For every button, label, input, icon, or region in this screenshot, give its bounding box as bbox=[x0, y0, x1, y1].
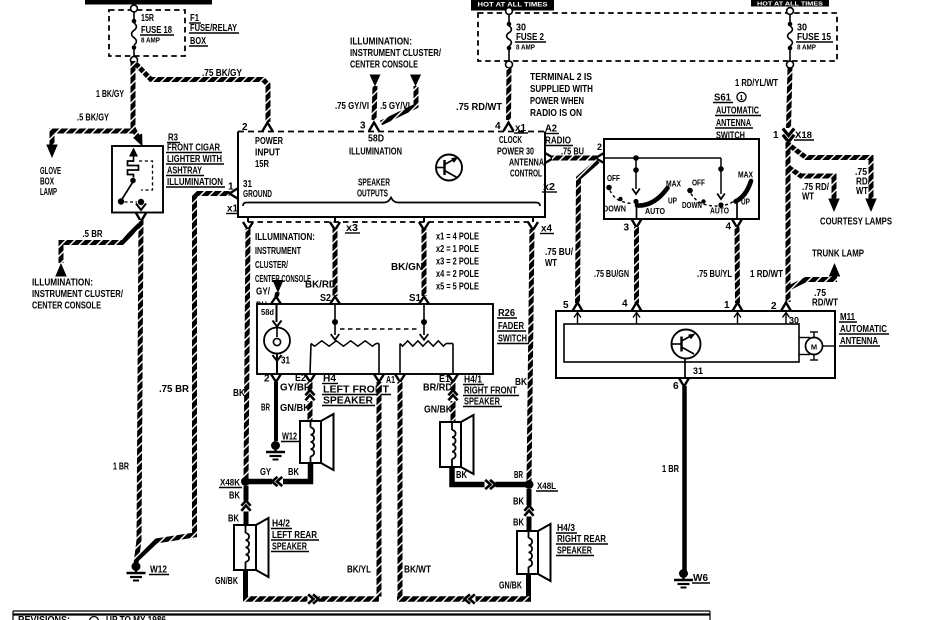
fader wiper S2 bbox=[331, 304, 340, 340]
wire BK/WT (A1b) bbox=[398, 382, 403, 597]
label 4 (radio pin) bbox=[495, 121, 501, 132]
label GY/ BU bbox=[256, 287, 270, 312]
label 30 (M11) bbox=[789, 316, 799, 326]
connector chevrons (GY/BK) bbox=[272, 477, 283, 486]
wire .75 GY/VI bbox=[374, 86, 375, 120]
label ANTENNA (M11) bbox=[839, 336, 880, 347]
svg-text:LAMP: LAMP bbox=[40, 187, 57, 198]
svg-text:X18: X18 bbox=[795, 130, 812, 140]
svg-text:.5 BR: .5 BR bbox=[83, 229, 104, 240]
svg-text:ANTENNA: ANTENNA bbox=[509, 158, 544, 169]
label 1 RD/YL/WT bbox=[735, 78, 778, 89]
svg-text:BK: BK bbox=[228, 514, 240, 525]
label S1 bbox=[409, 293, 421, 304]
switch rotary 1 thick arc bbox=[637, 188, 668, 206]
svg-text:1: 1 bbox=[724, 300, 730, 311]
fuse/relay box F1 (dashed) bbox=[109, 10, 185, 56]
label BK (to H4/2) bbox=[228, 514, 240, 525]
label 58D ILLUMINATION bbox=[349, 134, 402, 158]
label BK/GN bbox=[391, 262, 423, 273]
svg-text:3: 3 bbox=[360, 121, 366, 132]
svg-text:BK: BK bbox=[456, 470, 468, 481]
fader pin A1a fork bbox=[374, 374, 384, 382]
label BK (right wire) bbox=[515, 377, 528, 388]
label BK (left wire) bbox=[233, 388, 246, 399]
svg-text:CONTROL: CONTROL bbox=[510, 169, 542, 180]
label BOX bbox=[189, 36, 208, 47]
svg-text:2: 2 bbox=[597, 142, 602, 152]
label .75 BU/ WT bbox=[545, 247, 573, 269]
fader pin S1 fork bbox=[419, 297, 429, 305]
svg-text:TRUNK LAMP: TRUNK LAMP bbox=[812, 249, 864, 260]
label GN/BK (E1) bbox=[424, 405, 453, 416]
svg-text:ILLUMINATION: ILLUMINATION bbox=[349, 147, 402, 158]
switch rotary 1 wiper arrow bbox=[632, 189, 640, 205]
M11 pin 5 stub arrow bbox=[574, 313, 581, 325]
label ILLUMINATION: INSTRUMENT CLUSTER/ CENTER CONSOLE bbox=[32, 278, 123, 312]
fader lamp top arrow bbox=[273, 304, 282, 327]
fuse box (dashed, fuses 2 and 15) bbox=[478, 13, 837, 61]
arrow to glove box lamp bbox=[46, 145, 58, 159]
M11 pin 2 fork bbox=[781, 303, 791, 312]
fuse F1 FUSE 18 bbox=[131, 5, 138, 63]
svg-text:1: 1 bbox=[773, 130, 779, 141]
label HOT AT ALL TIMES (cropped) middle bbox=[471, 0, 554, 11]
wire 1 RD/YL/WT bbox=[789, 68, 791, 128]
svg-text:SPEAKER: SPEAKER bbox=[358, 178, 391, 189]
svg-text:A1: A1 bbox=[386, 375, 395, 386]
label F1 bbox=[189, 13, 201, 24]
switch pin 4 fork bbox=[732, 219, 742, 228]
switch rotary 2 feed bbox=[718, 166, 724, 194]
svg-text:.75 BU/: .75 BU/ bbox=[545, 247, 573, 258]
label .75 RD/ WT (branch 2) bbox=[802, 182, 829, 203]
connector chevrons below X48K bbox=[241, 501, 250, 512]
svg-text:x1 = 4 POLE: x1 = 4 POLE bbox=[436, 232, 479, 243]
wire BR (fader 31 to W12) bbox=[274, 382, 278, 441]
label HOT AT ALL TIMES right bbox=[751, 0, 829, 8]
connector pin fork x4 bbox=[528, 222, 538, 230]
svg-text:BK: BK bbox=[233, 388, 246, 399]
label FUSE 2 bbox=[515, 32, 546, 43]
label E1 bbox=[439, 374, 450, 385]
ground W12 bbox=[127, 562, 146, 581]
switch pin 2 fork bbox=[596, 153, 605, 163]
wire .75 BU bbox=[552, 156, 597, 161]
wire BK (radio to X48K) bbox=[246, 229, 248, 480]
svg-text:AUTO: AUTO bbox=[645, 206, 665, 216]
switch rotary 1 output bbox=[636, 206, 638, 219]
ground W6 bbox=[674, 569, 693, 588]
pin fork below R3 bbox=[136, 213, 146, 222]
label .75 BU/YL bbox=[697, 269, 732, 280]
wire BK (x4 to X48L) bbox=[529, 229, 532, 483]
svg-text:x3 = 2 POLE: x3 = 2 POLE bbox=[436, 257, 479, 268]
svg-text:.75 BR: .75 BR bbox=[159, 384, 190, 395]
svg-text:POWER WHEN: POWER WHEN bbox=[530, 96, 584, 107]
label X48L bbox=[536, 481, 558, 491]
label .75 BR bbox=[159, 384, 190, 395]
wire 1 BK/GY bbox=[133, 61, 139, 139]
wire .75 BU/WT bbox=[578, 161, 599, 303]
label W12 bbox=[149, 565, 169, 576]
svg-text:2: 2 bbox=[242, 122, 248, 133]
label W6 bbox=[692, 573, 710, 584]
label 1 BR bbox=[113, 462, 130, 473]
label .75 RD/WT bbox=[456, 102, 502, 113]
label 58d bbox=[261, 307, 274, 317]
fader potentiometer right bbox=[400, 341, 453, 374]
label BK (to H4/3) bbox=[513, 518, 525, 529]
svg-text:POWER 30: POWER 30 bbox=[497, 147, 534, 158]
label 1 RD/WT bbox=[750, 269, 783, 280]
switch rotary 1 OFF contact bbox=[606, 173, 620, 190]
label 31 (fader) bbox=[281, 356, 290, 367]
svg-text:GLOVE: GLOVE bbox=[40, 166, 61, 177]
svg-text:BR: BR bbox=[514, 470, 523, 481]
fader pin E1 fork bbox=[448, 374, 458, 382]
wire courtesy lamp branch 1 bbox=[789, 145, 871, 200]
label .75 BU/GN bbox=[594, 269, 629, 280]
label BR (X48L side) bbox=[514, 470, 523, 481]
automatic antenna M11 box bbox=[556, 311, 835, 378]
svg-text:OFF: OFF bbox=[607, 173, 620, 183]
label .5 BR bbox=[83, 229, 104, 240]
label 2 (M11 pin) bbox=[771, 301, 777, 312]
M11 pin 2 stub arrow bbox=[783, 313, 790, 325]
label AUTOMATIC (S61) bbox=[715, 106, 761, 117]
svg-text:GY: GY bbox=[260, 467, 271, 478]
pin fork radio pin 1 bbox=[230, 189, 238, 199]
label A1 bbox=[386, 375, 395, 386]
label AUTO (rotary 1) bbox=[645, 206, 665, 216]
svg-text:MAX: MAX bbox=[738, 170, 753, 180]
svg-text:DOWN: DOWN bbox=[603, 204, 626, 214]
junction X48K bbox=[241, 477, 250, 486]
radio top pin 4 fork bbox=[504, 123, 514, 132]
label x1 (radio pin 4) bbox=[514, 123, 528, 134]
wire .75 BK/GY bbox=[135, 63, 268, 122]
wire H4/2 to bus bbox=[243, 570, 248, 599]
svg-text:INSTRUMENT: INSTRUMENT bbox=[255, 246, 301, 257]
label REVISIONS (cropped) bbox=[18, 615, 166, 620]
motor M in M11 bbox=[799, 332, 835, 360]
label BR (wire) bbox=[261, 403, 270, 414]
connector chevrons rear bus right bbox=[465, 594, 476, 603]
svg-text:BK: BK bbox=[229, 491, 241, 502]
wire rear bus right (BK/WT) bbox=[397, 596, 531, 602]
svg-text:31: 31 bbox=[693, 366, 703, 376]
label x3 bbox=[345, 223, 360, 234]
svg-text:CENTER CONSOLE: CENTER CONSOLE bbox=[255, 274, 311, 285]
fader wiper S1 bbox=[420, 304, 429, 340]
wire GY/BR GN/BK (E2) bbox=[308, 382, 313, 421]
label 30 (fuse2) bbox=[516, 23, 526, 34]
cigar lighter R3 box bbox=[112, 146, 163, 213]
switch pin 3 fork bbox=[632, 219, 642, 228]
transistor in radio bbox=[436, 155, 462, 181]
wire BR/RD GN/BK (E1) bbox=[451, 382, 456, 422]
wire courtesy lamp branch 2 bbox=[788, 167, 834, 200]
wire BK below X48L bbox=[527, 489, 532, 531]
label 5 (M11 pin) bbox=[563, 300, 569, 311]
switch rotary 2 OFF contact bbox=[687, 178, 705, 194]
svg-text:INSTRUMENT CLUSTER/: INSTRUMENT CLUSTER/ bbox=[350, 48, 441, 59]
wire trunk lamp branch bbox=[788, 274, 835, 289]
svg-text:x2 = 1 POLE: x2 = 1 POLE bbox=[436, 244, 479, 255]
revisions table border bbox=[13, 611, 710, 620]
fader lamp bbox=[264, 328, 290, 354]
label DOWN (rotary 2) bbox=[682, 200, 702, 210]
svg-text:TERMINAL 2 IS: TERMINAL 2 IS bbox=[530, 72, 592, 83]
label GN/BK (H4/3) bbox=[499, 581, 523, 592]
label BK (H4 out) bbox=[288, 467, 300, 478]
label H4/1 RIGHT FRONT SPEAKER bbox=[463, 375, 519, 408]
svg-text:BR: BR bbox=[261, 403, 270, 414]
label .5 BK/GY bbox=[77, 113, 109, 124]
legend x1..x5 poles bbox=[436, 232, 479, 293]
label 2 (fader pin) bbox=[264, 374, 270, 385]
svg-text:.5 BK/GY: .5 BK/GY bbox=[77, 113, 109, 124]
label GN/BK (E2) bbox=[280, 403, 311, 414]
label FUSE 18 bbox=[140, 25, 174, 36]
label 2 (radio pin) bbox=[242, 122, 248, 133]
svg-text:GN/BK: GN/BK bbox=[424, 405, 453, 416]
label 2 (switch pin) bbox=[597, 142, 602, 152]
svg-text:ILLUMINATION:: ILLUMINATION: bbox=[350, 37, 412, 48]
wire .5 BR bbox=[61, 224, 139, 263]
M11 pin 5 fork bbox=[573, 303, 583, 312]
label .75 RD/ WT (branch 1) bbox=[855, 167, 870, 197]
radio top pin 3 fork bbox=[369, 123, 379, 132]
label 8 AMP bbox=[141, 36, 160, 45]
svg-text:CLUSTER/: CLUSTER/ bbox=[255, 260, 288, 271]
label LIGHTER WITH bbox=[166, 154, 224, 165]
svg-text:RD/WT: RD/WT bbox=[812, 298, 838, 309]
svg-text:x5 = 5 POLE: x5 = 5 POLE bbox=[436, 282, 479, 293]
label BK (below X48L) bbox=[513, 497, 525, 508]
label HOT AT ALL TIMES (cropped) left bbox=[85, 0, 212, 5]
wire BK below X48K bbox=[244, 486, 249, 525]
arrow courtesy lamp 1 bbox=[865, 199, 877, 213]
connector pin fork x3 bbox=[330, 222, 340, 230]
svg-text:UP TO MY 1986: UP TO MY 1986 bbox=[106, 615, 166, 620]
svg-text:BK: BK bbox=[513, 497, 525, 508]
label ILLUMINATION bbox=[166, 177, 225, 188]
svg-text:3: 3 bbox=[624, 223, 630, 234]
label AUTO (rotary 2) bbox=[710, 206, 729, 216]
connector chevrons (BK/BR) bbox=[485, 480, 496, 489]
label BK/YL bbox=[347, 565, 371, 576]
arrow trunk lamp bbox=[829, 263, 841, 277]
svg-text:OFF: OFF bbox=[692, 178, 705, 188]
label 4 (M11 pin) bbox=[622, 299, 628, 310]
label DOWN (rotary 1) bbox=[603, 204, 626, 214]
fader switch R26 box bbox=[257, 304, 493, 374]
fader pin 58d fork bbox=[271, 297, 281, 305]
label S2 bbox=[320, 293, 331, 304]
label 1 (M11 pin) bbox=[724, 300, 730, 311]
switch rotary 1 feed bbox=[633, 155, 639, 189]
wire BK/GN bbox=[422, 229, 427, 296]
label 3 (switch pin) bbox=[624, 223, 630, 234]
label H4 LEFT FRONT SPEAKER bbox=[322, 374, 391, 407]
M11 pin 1 fork bbox=[733, 303, 743, 312]
svg-text:OUTPUTS: OUTPUTS bbox=[357, 189, 388, 200]
label 8 AMP (fuse15) bbox=[797, 43, 816, 52]
switch rotary 2 output bbox=[736, 203, 738, 219]
ground W12 (fader) bbox=[266, 441, 285, 460]
svg-text:1 RD/WT: 1 RD/WT bbox=[750, 269, 783, 280]
label FRONT CIGAR bbox=[166, 143, 222, 154]
label S61 with circled 1 bbox=[713, 92, 746, 103]
svg-text:x4 = 2 POLE: x4 = 2 POLE bbox=[436, 269, 479, 280]
label H4/3 RIGHT REAR SPEAKER bbox=[556, 523, 608, 557]
arrow illumination feed 2 bbox=[410, 75, 421, 87]
label 6 (M11 pin) bbox=[673, 381, 679, 392]
wire BK/RD bbox=[333, 229, 338, 296]
wire 1 RD/WT (X18 to M11 pin 2) bbox=[786, 141, 791, 302]
svg-text:2: 2 bbox=[264, 374, 270, 385]
transistor in M11 bbox=[672, 330, 701, 359]
wire .75 BU/GN bbox=[634, 227, 639, 303]
label BK (H4/1 out) bbox=[456, 470, 468, 481]
svg-text:4: 4 bbox=[495, 121, 501, 132]
radio x2 pin fork bbox=[545, 153, 554, 163]
junction X48L bbox=[525, 480, 534, 489]
svg-text:WT: WT bbox=[802, 192, 814, 203]
svg-text:.75 BK/GY: .75 BK/GY bbox=[202, 68, 242, 79]
svg-text:1 RD/YL/WT: 1 RD/YL/WT bbox=[735, 78, 778, 89]
label R26 bbox=[497, 308, 517, 319]
fader pin E2 fork bbox=[305, 374, 315, 382]
wire .75 BR (radio ground) bbox=[137, 194, 230, 560]
svg-text:4: 4 bbox=[726, 222, 732, 233]
svg-text:1 BR: 1 BR bbox=[662, 464, 680, 475]
svg-text:M: M bbox=[811, 343, 817, 352]
label M11 bbox=[839, 312, 857, 323]
label 30 (fuse15) bbox=[797, 23, 807, 34]
note TERMINAL 2 IS SUPPLIED WITH POWER WHEN RADIO IS ON bbox=[530, 72, 593, 119]
label ANTENNA (S61) bbox=[715, 118, 753, 129]
wire BK/YL (A1a) bbox=[377, 382, 382, 597]
fuse F15 FUSE 15 bbox=[787, 8, 794, 68]
label AUTOMATIC (M11) bbox=[839, 324, 889, 335]
label MAX (rotary 2) bbox=[738, 170, 753, 180]
label GY bbox=[260, 467, 271, 478]
svg-text:AUTO: AUTO bbox=[710, 206, 729, 216]
switch rotary 1 dashed arc bbox=[610, 191, 633, 204]
svg-text:GN/BK: GN/BK bbox=[215, 576, 239, 587]
label 4 (switch pin) bbox=[726, 222, 732, 233]
speaker H4/2 left rear bbox=[234, 518, 269, 577]
M11 pin 6 fork bbox=[679, 378, 689, 387]
connector line x1 (dashed) bbox=[248, 221, 533, 223]
svg-text:BR/RD: BR/RD bbox=[423, 383, 452, 394]
svg-text:1 BK/GY: 1 BK/GY bbox=[96, 89, 124, 100]
svg-text:WT: WT bbox=[856, 186, 868, 197]
svg-text:INSTRUMENT CLUSTER/: INSTRUMENT CLUSTER/ bbox=[32, 289, 123, 300]
label A2 RADIO bbox=[544, 124, 573, 147]
connector pin fork (BK wire) bbox=[243, 222, 253, 230]
svg-text:31: 31 bbox=[281, 356, 290, 367]
radio bottom stub x4 bbox=[532, 217, 534, 222]
fader potentiometer left bbox=[310, 341, 379, 374]
svg-text:GY/: GY/ bbox=[256, 287, 270, 298]
wire speaker H4 to X48K bbox=[249, 463, 311, 482]
label x2 bbox=[542, 182, 557, 193]
svg-text:BK: BK bbox=[288, 467, 300, 478]
svg-text:CLOCK: CLOCK bbox=[499, 135, 522, 146]
label E2 bbox=[295, 373, 306, 384]
label MAX (rotary 1) bbox=[666, 179, 681, 189]
arrow illumination feed 1 bbox=[370, 75, 381, 87]
wire 1 BR bbox=[136, 220, 141, 564]
label 15R bbox=[141, 13, 155, 24]
radio bottom stub x3 bbox=[334, 217, 336, 222]
label UP (rotary 2) bbox=[741, 197, 750, 207]
arrowhead into R3 bbox=[133, 134, 142, 147]
speaker H4/3 right rear bbox=[517, 524, 551, 581]
wire .5 GY/VI bbox=[381, 86, 416, 123]
radio A2 box bbox=[238, 132, 545, 218]
label SPEAKER OUTPUTS bbox=[357, 178, 391, 200]
label BR/RD bbox=[423, 383, 452, 394]
svg-text:INPUT: INPUT bbox=[255, 148, 280, 159]
switch rotary 2 thick arc bbox=[736, 181, 752, 202]
label FUSE/RELAY bbox=[189, 23, 239, 34]
label R3 bbox=[167, 133, 180, 144]
label 1 BR (M11) bbox=[662, 464, 680, 475]
label .75 BK/GY bbox=[202, 68, 242, 79]
wire .5 BK/GY bbox=[52, 131, 133, 145]
svg-text:30: 30 bbox=[789, 316, 799, 326]
fader lamp bottom arrow bbox=[273, 354, 282, 375]
label x1 (connector) bbox=[226, 204, 240, 215]
arrow courtesy lamp 2 bbox=[828, 199, 840, 213]
svg-text:1 BR: 1 BR bbox=[113, 462, 130, 473]
wire rear bus left (BK/YL) bbox=[243, 596, 379, 602]
R3 dashed sub-box bbox=[139, 161, 153, 190]
M11 transistor ground lead bbox=[684, 359, 686, 379]
svg-text:WT: WT bbox=[545, 258, 557, 269]
fader pin S2 fork bbox=[330, 297, 340, 305]
fader pin A1b fork bbox=[395, 374, 405, 382]
svg-text:BK: BK bbox=[513, 518, 525, 529]
svg-text:15R: 15R bbox=[141, 13, 155, 24]
svg-text:GN/BK: GN/BK bbox=[499, 581, 523, 592]
svg-text:58d: 58d bbox=[261, 307, 274, 317]
wire 1 BR (M11 to W6) bbox=[682, 386, 687, 571]
wire speaker H4/1 to X48L bbox=[452, 467, 526, 485]
fuse F2 FUSE 2 bbox=[506, 8, 513, 68]
connector chevrons below X48L bbox=[524, 506, 533, 517]
label W12 (fader) bbox=[281, 432, 299, 443]
label .5 GY/VI bbox=[380, 101, 410, 112]
arrow illumination feed (fader) bbox=[273, 280, 284, 297]
wire .75 BU/YL bbox=[735, 227, 741, 303]
label GN/BK (H4/2) bbox=[215, 576, 239, 587]
label .75 RD/WT (trunk) bbox=[812, 288, 838, 309]
svg-text:DOWN: DOWN bbox=[682, 200, 702, 210]
svg-text:BOX: BOX bbox=[40, 177, 54, 188]
svg-text:.75 BU/YL: .75 BU/YL bbox=[697, 269, 732, 280]
label BK (below X48K) bbox=[229, 491, 241, 502]
label SWITCH (S61) bbox=[715, 131, 747, 142]
connector X18 chevrons bbox=[783, 129, 795, 142]
speaker outputs brace line bbox=[243, 198, 540, 207]
svg-text:X48L: X48L bbox=[537, 481, 556, 491]
